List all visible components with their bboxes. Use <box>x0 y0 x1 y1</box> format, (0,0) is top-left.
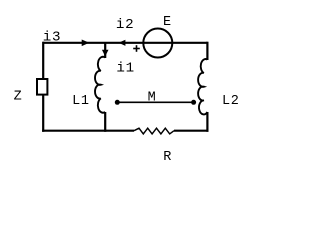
wire L1 branch upper <box>104 43 106 58</box>
source E (circle) <box>143 29 172 58</box>
resistor Z (impedance box) <box>37 79 47 95</box>
inductor L1 coil <box>95 57 105 113</box>
wire left lower <box>42 95 44 132</box>
resistor R zigzag <box>134 128 174 134</box>
wire L1 branch lower <box>104 112 106 132</box>
svg-text:i3: i3 <box>43 30 61 46</box>
svg-text:L2: L2 <box>222 94 240 109</box>
wire bottom left <box>42 130 134 132</box>
svg-text:L1: L1 <box>72 94 90 109</box>
wire right lower <box>206 112 208 132</box>
svg-text:R: R <box>163 150 172 165</box>
inductor L2 coil <box>198 59 207 114</box>
dot L2 side <box>191 100 196 105</box>
svg-text:M: M <box>148 90 157 105</box>
arrow i1 (down) <box>102 50 109 57</box>
svg-text:i1: i1 <box>116 61 134 77</box>
dot L1 side <box>115 100 120 105</box>
mutual coupling M line <box>117 101 193 103</box>
wire top <box>43 42 207 44</box>
+ polarity mark <box>133 45 140 52</box>
arrow i3 (right) <box>82 40 90 47</box>
svg-text:Z: Z <box>14 90 23 105</box>
wire right upper <box>206 42 208 60</box>
wire bottom right <box>174 130 209 132</box>
svg-text:E: E <box>163 15 172 30</box>
wire left upper <box>42 42 44 79</box>
arrow i2 (left) <box>119 40 126 46</box>
svg-text:i2: i2 <box>116 17 134 33</box>
